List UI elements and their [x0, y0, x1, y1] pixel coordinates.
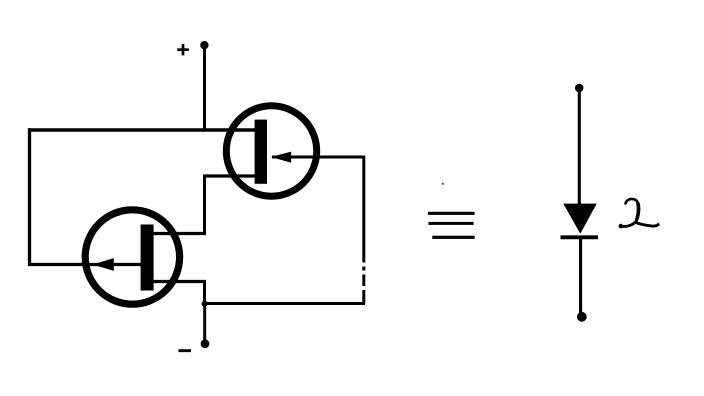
transistor Q2 channel bar [141, 225, 154, 291]
transistor Q2 (lower P-channel JFET) envelope [85, 210, 179, 304]
wire: diode cathode lead [579, 238, 582, 317]
wire: plus supply lead down to top rail [203, 46, 206, 130]
wire: Q1 source to Q2 drain vertical [203, 175, 206, 234]
node: diode cathode terminal dot [577, 312, 587, 322]
wire: minus terminal lead [203, 304, 206, 342]
node minus terminal dot [201, 339, 210, 348]
wire: Q2 source down to bottom node [203, 282, 206, 305]
diode D1 triangle (anode, pointing down) [563, 204, 596, 234]
wire: Q2 source lead (bottom-right) [152, 280, 206, 283]
wire: top rail from left bus to Q1 channel [28, 128, 256, 132]
wire: Q2 gate lead from left bus [28, 263, 141, 266]
label lambda (handwritten) [619, 199, 659, 228]
wire: Q1 source lead (bottom-left) [203, 174, 256, 177]
arrow on Q1 gate (points left, N-channel) [271, 152, 291, 163]
speck above equivalence sign [442, 183, 444, 185]
label - (minus sign) [179, 349, 192, 352]
equivalence sign (three bars) [428, 212, 475, 239]
wire: right vertical bus (with scan dash gaps) [362, 156, 365, 263]
wire: bottom rail from bottom node to right bus [205, 302, 366, 305]
label + (plus sign) [177, 44, 189, 56]
transistor Q1 channel bar [255, 120, 267, 184]
arrow on Q2 gate (points left, P-channel) [93, 258, 114, 271]
wire: Q1 gate lead to right bus [272, 156, 365, 159]
node: bottom junction dot [202, 301, 208, 307]
diode D1 cathode bar [561, 235, 599, 239]
node plus terminal dot [200, 41, 208, 49]
transistor Q1 (upper N-channel JFET) envelope [226, 106, 316, 196]
wire: Q2 drain lead (top-right) [152, 232, 206, 235]
wire: left vertical bus [28, 128, 31, 265]
wire: diode anode lead [578, 89, 581, 205]
node: diode anode terminal dot [575, 84, 584, 93]
